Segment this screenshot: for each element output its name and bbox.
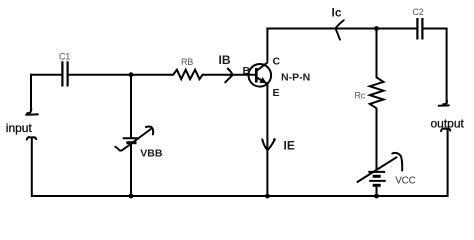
svg-text:C1: C1 bbox=[59, 52, 70, 62]
svg-text:E: E bbox=[273, 87, 280, 99]
node: bottom rail dot at emitter bbox=[265, 194, 270, 199]
terminal: input upper hook bbox=[26, 108, 38, 115]
svg-text:Ic: Ic bbox=[332, 6, 342, 20]
transistor Q1 (NPN) bbox=[243, 56, 311, 100]
svg-text:N-P-N: N-P-N bbox=[281, 72, 310, 84]
node: junction dot on top rail at Rc branch bbox=[374, 26, 379, 31]
wire: input upper vertical bbox=[30, 74, 32, 111]
wire: Rc branch upper bbox=[376, 29, 378, 78]
svg-text:input: input bbox=[6, 121, 33, 135]
wire: top-left horizontal from input corner to C1 bbox=[31, 74, 61, 76]
node: bottom rail dot at VBB bbox=[129, 194, 134, 199]
svg-text:C2: C2 bbox=[413, 7, 424, 17]
wire: emitter vertical down bbox=[266, 84, 268, 196]
capacitor C1 bbox=[59, 52, 70, 87]
svg-text:IE: IE bbox=[284, 139, 295, 153]
wire: bottom rail bbox=[31, 195, 448, 197]
terminal: input lower hook bbox=[27, 137, 36, 139]
wire: top rail left segment bbox=[267, 28, 417, 30]
svg-text:IB: IB bbox=[219, 53, 231, 67]
capacitor C2 bbox=[413, 7, 424, 40]
wire: VBB branch upper bbox=[130, 75, 132, 138]
resistor RB bbox=[173, 57, 202, 79]
current arrow IB bbox=[219, 53, 233, 82]
battery VCC (variable) bbox=[358, 153, 416, 187]
wire: VCC to bottom rail bbox=[376, 186, 378, 196]
wire: top rail right segment bbox=[423, 28, 446, 30]
wire: collector vertical up bbox=[266, 28, 268, 62]
svg-text:VBB: VBB bbox=[140, 147, 163, 159]
svg-text:B: B bbox=[243, 65, 251, 77]
current arrow Ic bbox=[332, 6, 344, 40]
wire: VBB to bottom rail bbox=[130, 144, 132, 196]
svg-text:VCC: VCC bbox=[395, 176, 415, 187]
terminal: output lower hook bbox=[441, 129, 450, 132]
wire: input lower vertical bbox=[31, 138, 33, 197]
node: bottom rail dot at VCC bbox=[374, 194, 379, 199]
svg-text:RB: RB bbox=[181, 57, 193, 67]
wire: Rc to VCC battery bbox=[376, 108, 378, 171]
battery VBB (variable) bbox=[115, 127, 163, 160]
terminal: output upper hook bbox=[439, 101, 449, 106]
wire: output upper vertical bbox=[446, 28, 448, 105]
svg-text:C: C bbox=[273, 56, 281, 68]
wire: RB to transistor base bbox=[203, 74, 256, 76]
wire: C1 to RB bbox=[69, 74, 174, 76]
svg-text:Rc: Rc bbox=[355, 90, 366, 100]
current arrow IE bbox=[262, 139, 295, 153]
wire: output lower vertical bbox=[447, 130, 449, 197]
resistor Rc bbox=[355, 77, 384, 108]
node: junction dot at base/VBB branch bbox=[129, 72, 134, 77]
